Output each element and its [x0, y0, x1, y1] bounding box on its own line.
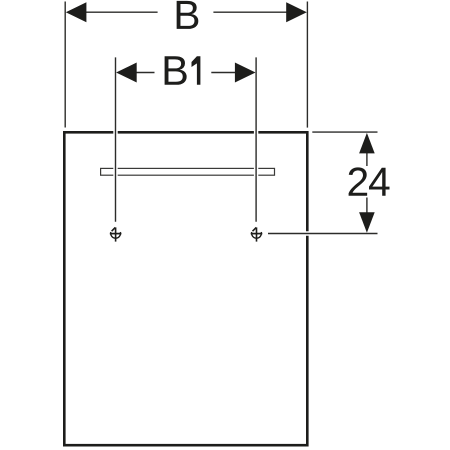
dimension B1 extension line left (white casing)	[113, 57, 117, 221]
label B1 digit 1	[192, 56, 201, 85]
dimension B1 extension line right	[255, 57, 257, 221]
fixing point left	[110, 227, 122, 241]
dimension B1 arrow left	[116, 63, 137, 83]
dimension B1 arrow right	[235, 63, 256, 83]
dimension 24 bottom extension line	[268, 233, 378, 235]
label 24 digit 2	[349, 167, 368, 195]
dimension 24 top extension line	[312, 131, 377, 133]
fixing point right	[251, 227, 263, 241]
dimension 24 line upper segment	[366, 153, 368, 167]
dimension 24 bottom extension line (white casing)	[268, 231, 378, 235]
light strip	[101, 168, 275, 175]
dimension B1 extension line right (white casing)	[254, 57, 258, 221]
dimension B line left segment	[86, 11, 158, 13]
dimension B extension line right	[306, 2, 308, 128]
dimension 24 line lower segment	[366, 198, 368, 213]
dimension 24 arrow down	[359, 212, 375, 233]
dimension B extension line left	[64, 2, 66, 128]
dimension B arrow left	[66, 2, 87, 22]
dimension B line right segment	[213, 11, 287, 13]
dimension B1 line right segment	[211, 72, 236, 74]
dimension B1 extension line left	[115, 57, 117, 221]
dimension B1 line left segment	[136, 72, 155, 74]
label 24 digit 4	[369, 168, 390, 196]
mirror body outline	[64, 132, 307, 445]
dimension 24 arrow up	[359, 133, 375, 154]
label B	[177, 1, 199, 29]
dimension B arrow right	[286, 2, 307, 22]
label B1 letter B	[165, 56, 187, 85]
